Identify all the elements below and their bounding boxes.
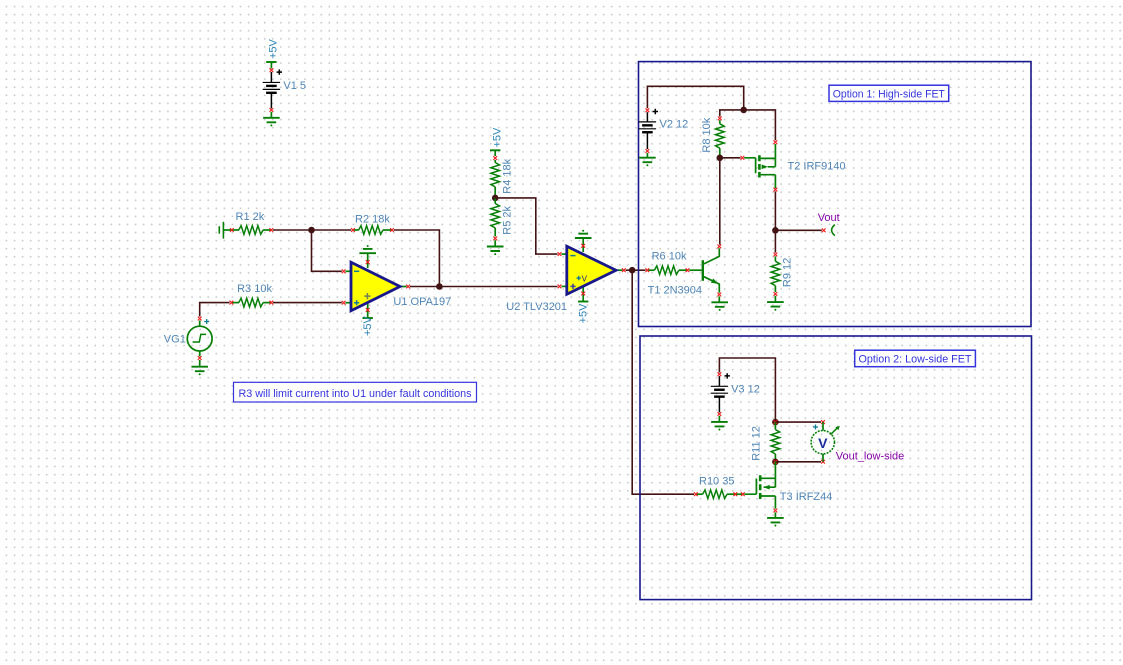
pin marker — [198, 356, 202, 360]
svg-text:R5 2k: R5 2k — [502, 205, 514, 234]
ground (V1) — [270, 112, 272, 118]
pin marker — [270, 108, 274, 112]
svg-text:V: V — [818, 435, 828, 451]
label Option 1: High-side FET — [829, 85, 949, 101]
svg-text:U1 OPA197: U1 OPA197 — [393, 296, 451, 308]
resistor R1 — [223, 229, 239, 231]
svg-text:R2 18k: R2 18k — [355, 213, 390, 225]
ground (V3) — [718, 416, 720, 422]
ground (divider) — [494, 240, 496, 246]
pin marker — [774, 292, 778, 296]
svg-text:U2 TLV3201: U2 TLV3201 — [506, 301, 567, 313]
svg-text:R4 18k: R4 18k — [502, 158, 514, 193]
label Option 2: Low-side FET — [855, 350, 976, 367]
ground (VG1) — [199, 360, 201, 367]
svg-text:R3 will limit current into U1: R3 will limit current into U1 under faul… — [239, 388, 472, 400]
junction R11 top — [772, 419, 779, 426]
svg-text:R6 10k: R6 10k — [652, 251, 687, 263]
svg-text:Option 2: Low-side FET: Option 2: Low-side FET — [859, 354, 972, 366]
transistor T2 — [741, 156, 745, 160]
comparator U2 — [562, 253, 569, 255]
transistor T3 — [744, 479, 756, 495]
wire — [744, 110, 776, 140]
svg-text:R1 2k: R1 2k — [236, 211, 265, 223]
frame Option 2 — [640, 336, 1032, 600]
junction divider — [492, 195, 499, 202]
power +5V rail (divider top) — [490, 149, 500, 151]
source VG1 — [187, 326, 212, 351]
wire — [774, 230, 776, 252]
wire — [394, 230, 440, 285]
wire — [720, 110, 744, 117]
wire — [632, 270, 694, 494]
wire — [775, 421, 821, 423]
svg-text:T3 IRFZ44: T3 IRFZ44 — [780, 491, 833, 503]
resistor R4 — [494, 160, 496, 163]
svg-text:V3 12: V3 12 — [731, 383, 760, 395]
resistor R6 — [647, 269, 654, 271]
svg-text:+5V: +5V — [491, 127, 503, 148]
svg-text:R11 12: R11 12 — [750, 426, 762, 461]
svg-text:V1 5: V1 5 — [283, 80, 306, 92]
battery V2 — [646, 112, 648, 122]
wire — [439, 286, 557, 288]
wire — [647, 86, 743, 110]
svg-text:V: V — [582, 274, 588, 283]
wire — [273, 302, 342, 304]
op-amp U1 supply bottom (+5V) — [367, 300, 369, 318]
junction R8/T2 gate — [717, 155, 724, 162]
ground (T3) — [774, 512, 776, 518]
wire — [312, 230, 342, 271]
wire — [719, 358, 775, 422]
junction R11 bottom — [772, 459, 779, 466]
pin marker — [774, 253, 778, 257]
resistor R5 — [494, 198, 496, 204]
wire — [495, 198, 557, 254]
battery V3 — [718, 376, 720, 386]
svg-text:+5V: +5V — [268, 38, 280, 59]
op-amp U1 supply top (ground) — [367, 253, 369, 268]
svg-text:VG1: VG1 — [164, 334, 186, 346]
wire — [774, 191, 776, 230]
transistor T1 — [689, 269, 701, 271]
junction U1 output — [436, 283, 443, 290]
wire — [775, 229, 821, 231]
svg-text:Vout_low-side: Vout_low-side — [836, 451, 905, 463]
wire — [626, 269, 633, 271]
voltmeter Vout_low-side — [821, 420, 825, 424]
wire — [200, 303, 230, 317]
resistor R10 — [696, 493, 703, 495]
junction node A — [308, 227, 315, 234]
wire — [312, 229, 352, 231]
svg-text:V2 12: V2 12 — [660, 118, 689, 130]
pin marker — [270, 68, 274, 72]
junction Vout — [772, 227, 779, 234]
wire — [632, 269, 645, 271]
ground (T1) — [718, 296, 720, 302]
svg-text:Vout: Vout — [818, 212, 840, 224]
resistor R11 — [774, 422, 776, 430]
svg-text:R8 10k: R8 10k — [701, 117, 713, 152]
note R3 will limit current into U1 under fault conditions — [234, 382, 477, 402]
junction U2 output — [629, 267, 636, 274]
op-amp U1 — [346, 270, 353, 272]
input terminal — [222, 222, 224, 239]
output terminal Vout — [822, 228, 826, 232]
pin marker — [718, 372, 722, 376]
svg-text:Option 1: High-side FET: Option 1: High-side FET — [833, 89, 945, 101]
resistor R8 — [719, 120, 721, 124]
ground (V2) — [646, 153, 648, 158]
wire — [720, 157, 741, 159]
svg-text:R10 35: R10 35 — [699, 475, 734, 487]
junction V2 rail — [740, 107, 747, 114]
pin marker — [718, 117, 722, 121]
resistor R2 — [353, 229, 359, 231]
svg-text:R9 12: R9 12 — [782, 258, 794, 287]
pin marker — [198, 317, 202, 321]
svg-text:R3 10k: R3 10k — [237, 283, 272, 295]
power +5V rail (V1 top) — [266, 61, 276, 63]
pin marker — [646, 108, 650, 112]
comparator U2 supply top (ground) — [582, 238, 584, 252]
ground (R9) — [774, 296, 776, 302]
svg-text:+5V: +5V — [362, 315, 374, 336]
svg-text:T2 IRF9140: T2 IRF9140 — [788, 161, 846, 173]
pin marker — [493, 156, 497, 160]
pin marker — [646, 149, 650, 153]
wire — [273, 229, 312, 231]
wire — [410, 286, 440, 288]
battery V1 — [270, 72, 272, 82]
comparator U2 supply bottom (+5V) — [582, 284, 584, 301]
resistor R9 — [774, 256, 776, 261]
svg-text:T1 2N3904: T1 2N3904 — [648, 284, 702, 296]
wire — [719, 158, 721, 245]
pin marker — [718, 412, 722, 416]
svg-text:+5V: +5V — [577, 303, 589, 324]
wire — [775, 461, 821, 463]
resistor R3 — [231, 302, 239, 304]
frame Option 1 — [639, 62, 1032, 327]
